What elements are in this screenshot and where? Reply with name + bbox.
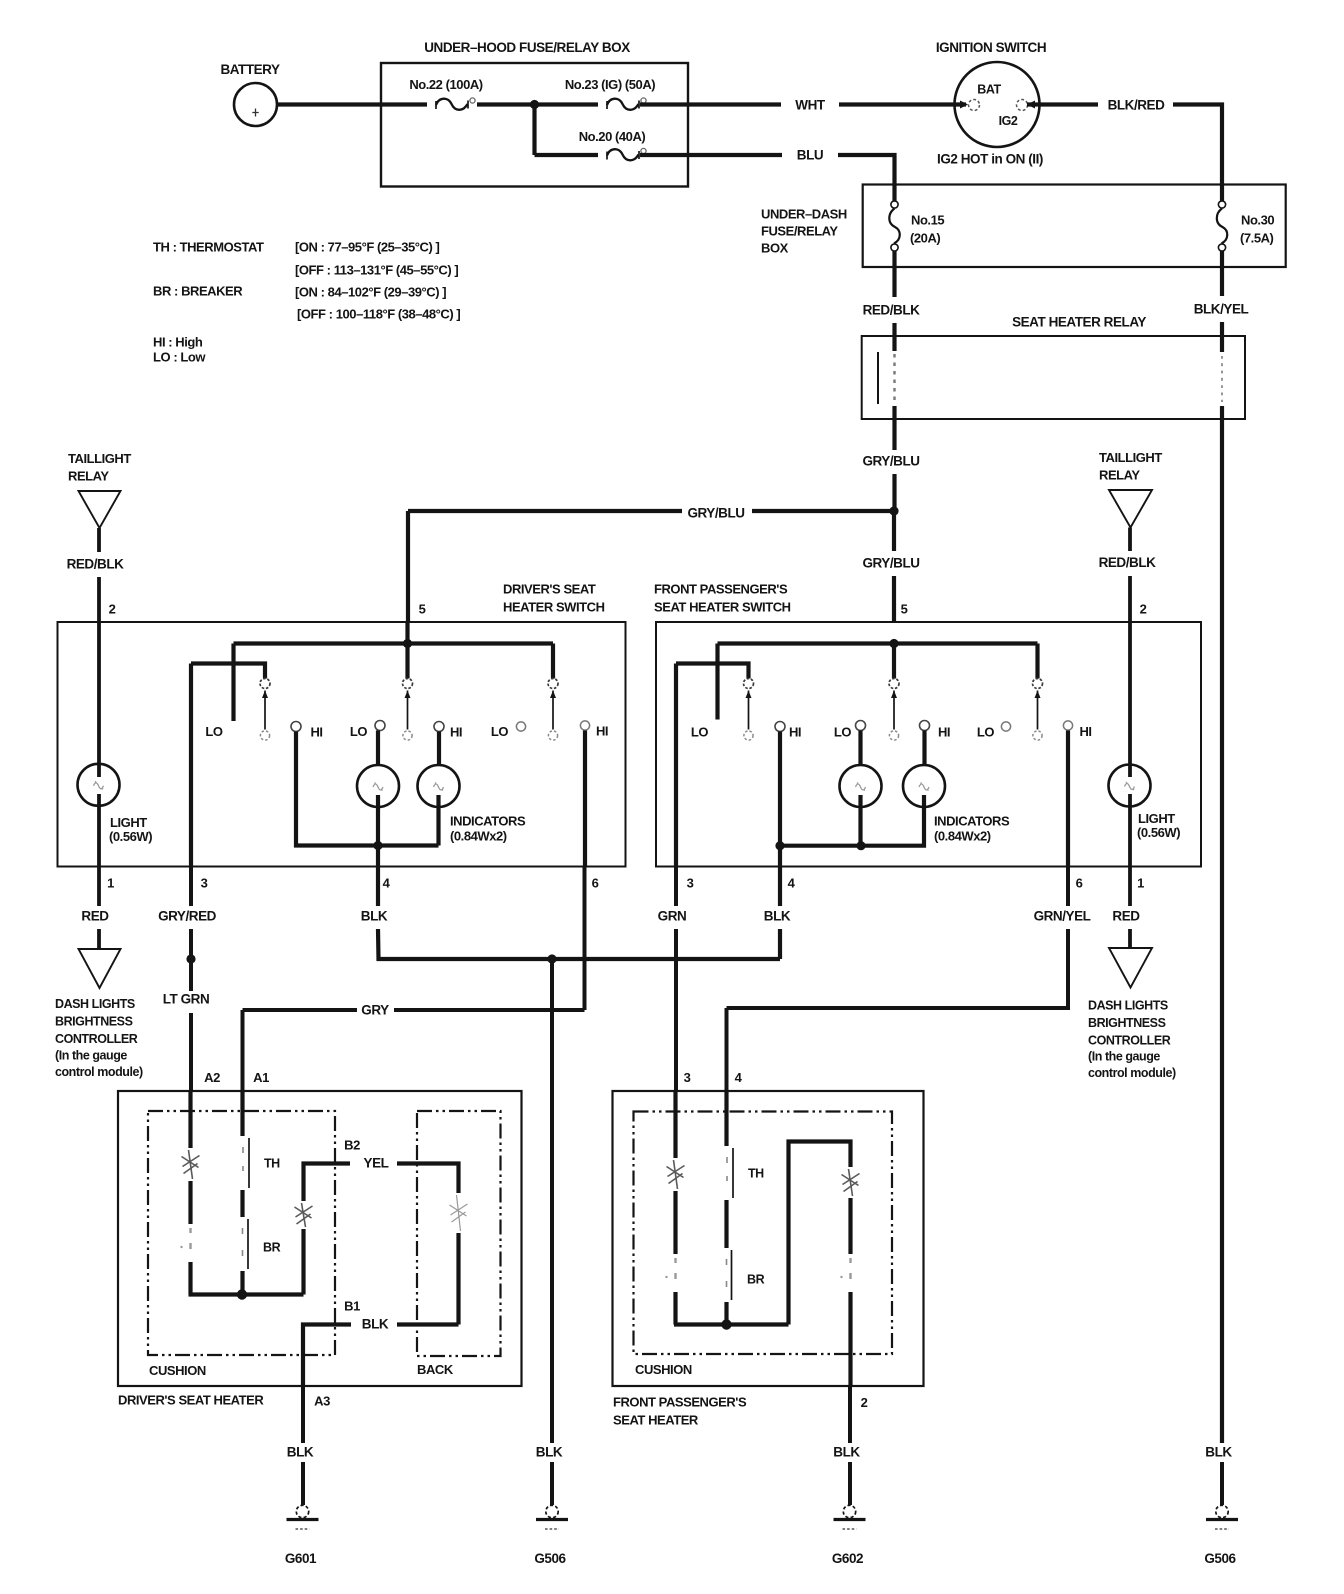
- driver cushion heater element 1: [182, 1150, 200, 1179]
- svg-text:A2: A2: [204, 1070, 220, 1085]
- svg-text:CONTROLLER: CONTROLLER: [1088, 1034, 1171, 1048]
- svg-text:2: 2: [861, 1395, 868, 1410]
- ground G506 right: [1206, 1505, 1238, 1529]
- wire passenger pin 3 riser: [674, 664, 678, 867]
- svg-text:BACK: BACK: [417, 1362, 454, 1377]
- driver switch position 2 arm tip contact: [403, 731, 412, 740]
- svg-text:(0.56W): (0.56W): [1137, 825, 1180, 840]
- passenger sw2 HI contact: [920, 721, 930, 731]
- svg-text:RED/BLK: RED/BLK: [863, 303, 921, 318]
- svg-text:BRIGHTNESS: BRIGHTNESS: [1088, 1016, 1166, 1030]
- wire GRY down to heater A1: [241, 1010, 245, 1091]
- wire passenger sw2 HI to indicator 2: [922, 731, 926, 767]
- wire driver pin1 RED upper: [97, 867, 101, 907]
- wire B1 right part: [397, 1322, 459, 1326]
- wire battery to under-hood box: [277, 102, 381, 106]
- svg-text:TH : THERMOSTAT: TH : THERMOSTAT: [153, 240, 264, 255]
- indicator bulb 2 driver: [418, 765, 460, 807]
- wire BLK branch to G506: [550, 959, 554, 1443]
- wire passenger heater bottom bus: [674, 1322, 789, 1326]
- svg-text:6: 6: [592, 876, 599, 891]
- passenger switch position 3 movable arm: [1035, 691, 1041, 730]
- wire BLK/RED to under-dash box: [1173, 105, 1222, 185]
- battery B1: [234, 83, 277, 126]
- wire driver pin6 GRY riser: [583, 867, 587, 1011]
- wire breaker to bus passenger: [724, 1302, 728, 1325]
- svg-text:HI: HI: [450, 725, 462, 740]
- passenger sw3 LO contact: [1001, 722, 1010, 731]
- svg-text:[OFF : 113–131°F (45–55°C) ]: [OFF : 113–131°F (45–55°C) ]: [295, 263, 458, 278]
- wire heater pin4 drop: [725, 1008, 729, 1091]
- wire fuse No.15 to box edge: [892, 251, 896, 267]
- svg-text:GRY/BLU: GRY/BLU: [862, 556, 919, 571]
- svg-text:RED: RED: [1112, 909, 1140, 924]
- svg-text:BR: BR: [747, 1273, 765, 1287]
- svg-text:G506: G506: [534, 1551, 566, 1566]
- svg-text:LO: LO: [350, 724, 367, 739]
- wire fuse No.30 to box edge: [1220, 251, 1224, 267]
- svg-text:UNDER–HOOD FUSE/RELAY BOX: UNDER–HOOD FUSE/RELAY BOX: [424, 40, 630, 55]
- wire GRN/YEL to heater pin4: [727, 929, 1069, 1008]
- wire taillight right upper: [1128, 528, 1132, 552]
- wire BLU to under-dash box: [838, 155, 895, 185]
- wire junction down: [532, 105, 536, 156]
- svg-text:FUSE/RELAY: FUSE/RELAY: [761, 224, 838, 239]
- wire passenger pin3 GRN upper: [674, 867, 678, 907]
- wire LT GRN to heater A2: [189, 1013, 193, 1091]
- svg-text:SEAT HEATER: SEAT HEATER: [613, 1413, 699, 1428]
- driver back heater element: [450, 1195, 468, 1231]
- svg-text:BLK: BLK: [362, 1317, 389, 1332]
- wire driver pin4 BLK upper: [376, 867, 380, 907]
- junction driver pin 5 bus: [403, 639, 412, 648]
- fuse No.23 (IG) (50A): [606, 101, 608, 109]
- wire thermostat to breaker driver: [240, 1190, 244, 1217]
- passenger switch position 3 pivot contact: [1033, 679, 1043, 689]
- svg-text:RED/BLK: RED/BLK: [67, 557, 125, 572]
- wire into fuse No.30: [1220, 185, 1224, 202]
- svg-text:control module): control module): [55, 1065, 143, 1079]
- svg-text:(In the gauge: (In the gauge: [1088, 1050, 1160, 1064]
- wire driver sw2 pivot feed: [405, 644, 409, 679]
- svg-text:RELAY: RELAY: [68, 469, 109, 484]
- wire breaker to bus driver: [240, 1271, 244, 1295]
- svg-text:LO : Low: LO : Low: [153, 350, 206, 365]
- wire BLK into right G506: [1220, 1462, 1224, 1505]
- wire into fuse No.15: [892, 185, 896, 202]
- svg-text:LO: LO: [977, 725, 994, 740]
- wire GRY right part: [394, 1008, 585, 1012]
- svg-text:1: 1: [107, 876, 114, 891]
- svg-text:HI: HI: [789, 725, 801, 740]
- driver sw2 LO contact: [375, 721, 385, 731]
- passenger switch position 3 arm tip contact: [1033, 731, 1042, 740]
- wire passenger element 2 to bus: [673, 1292, 677, 1325]
- wire passenger pin4 BLK upper: [778, 867, 782, 907]
- wire driver pin3 GRY/RED: [189, 867, 193, 907]
- ground G506 center: [536, 1505, 568, 1529]
- svg-text:CONTROLLER: CONTROLLER: [55, 1032, 138, 1046]
- ground G601: [287, 1505, 319, 1529]
- front passenger's seat heater switch box: [656, 622, 1201, 867]
- wire back element down: [456, 1233, 460, 1325]
- junction GRY/BLU: [889, 506, 898, 515]
- svg-text:(7.5A): (7.5A): [1240, 231, 1274, 246]
- svg-text:A3: A3: [314, 1394, 330, 1409]
- svg-text:HI: HI: [1079, 724, 1091, 739]
- svg-text:[ON : 77–95°F (25–35°C) ]: [ON : 77–95°F (25–35°C) ]: [295, 240, 439, 255]
- svg-text:5: 5: [419, 602, 426, 617]
- passenger sw2 LO contact: [856, 721, 866, 731]
- svg-text:LIGHT: LIGHT: [1138, 811, 1175, 826]
- wire A3 BLK upper: [301, 1386, 305, 1443]
- wire GRY/BLU drop to driver switch: [406, 511, 410, 622]
- wire passenger sw1 HI down: [778, 732, 782, 846]
- svg-text:2: 2: [109, 602, 116, 617]
- seat heater relay coil: [877, 352, 879, 404]
- dash lights brightness controller right: [1109, 948, 1152, 988]
- driver cushion heater element 3: [295, 1203, 313, 1227]
- svg-text:GRY/RED: GRY/RED: [158, 909, 217, 924]
- svg-text:BLK: BLK: [764, 909, 791, 924]
- junction passenger pin 5 bus: [889, 639, 898, 648]
- driver switch position 1 pivot contact: [260, 679, 270, 689]
- svg-text:LIGHT: LIGHT: [110, 815, 147, 830]
- light bulb passenger (0.56W): [1109, 765, 1151, 807]
- wire passenger indicator bus: [780, 844, 861, 848]
- svg-text:6: 6: [1076, 876, 1083, 891]
- taillight relay left: [79, 491, 121, 528]
- wire WHT to ignition switch: [839, 102, 966, 106]
- svg-text:TH: TH: [748, 1167, 764, 1181]
- wire driver light to pin 1: [97, 794, 101, 867]
- svg-text:GRN: GRN: [658, 909, 687, 924]
- wire driver pin 4 riser: [376, 846, 380, 867]
- seat heater relay box: [862, 336, 1245, 419]
- splice GRY/RED to LT GRN: [186, 954, 195, 963]
- wire fuse No.20 to BLU: [640, 153, 782, 157]
- wire driver sw2 HI to indicator 2: [437, 732, 441, 767]
- wire to fuse No.22: [381, 102, 427, 106]
- ground G602: [834, 1505, 866, 1529]
- wire YEL into back element: [397, 1164, 459, 1194]
- indicator bulb 1 passenger: [840, 765, 882, 807]
- wire driver pin 2 into light: [97, 622, 101, 777]
- passenger cushion heater element 1: [667, 1160, 685, 1189]
- svg-text:[ON : 84–102°F (29–39°C) ]: [ON : 84–102°F (29–39°C) ]: [295, 285, 446, 300]
- wire driver indicator bus: [372, 843, 439, 847]
- wire passenger sw1 LO contact feed: [715, 644, 719, 720]
- svg-text:INDICATORS: INDICATORS: [450, 814, 526, 829]
- wire passenger sw3 pivot feed: [1035, 644, 1039, 679]
- svg-text:DRIVER'S SEAT HEATER: DRIVER'S SEAT HEATER: [118, 1393, 264, 1408]
- wire passenger sw3 HI to pin 6: [1066, 731, 1070, 867]
- fuse No.30 (7.5A): [1218, 201, 1225, 208]
- svg-text:BATTERY: BATTERY: [220, 62, 280, 77]
- svg-text:LO: LO: [205, 724, 222, 739]
- svg-text:UNDER–DASH: UNDER–DASH: [761, 207, 847, 222]
- svg-text:WHT: WHT: [795, 98, 826, 113]
- svg-text:BLK: BLK: [1205, 1445, 1232, 1460]
- fuse No.15 (20A): [891, 201, 898, 208]
- wire passenger pin1 RED lower: [1128, 929, 1132, 948]
- svg-text:1: 1: [1137, 876, 1144, 891]
- svg-text:2: 2: [1140, 602, 1147, 617]
- wire passenger switch bus: [718, 641, 1038, 645]
- passenger switch position 2 movable arm: [891, 691, 897, 730]
- svg-text:[OFF : 100–118°F (38–48°C) ]: [OFF : 100–118°F (38–48°C) ]: [297, 307, 460, 322]
- junction under-hood bus: [530, 100, 539, 109]
- svg-text:No.22 (100A): No.22 (100A): [409, 77, 482, 92]
- svg-text:G506: G506: [1204, 1551, 1236, 1566]
- wire BLK/YEL lower: [1220, 322, 1224, 337]
- svg-text:IG2: IG2: [999, 114, 1018, 128]
- wire arrowhead at ignition IG2: [1027, 101, 1035, 109]
- svg-text:FRONT PASSENGER'S: FRONT PASSENGER'S: [654, 582, 788, 597]
- wire fuse No.23 to WHT: [640, 102, 781, 106]
- wire indicator 2 driver to bus: [436, 795, 440, 846]
- svg-text:SEAT HEATER SWITCH: SEAT HEATER SWITCH: [654, 600, 791, 615]
- svg-text:No.15: No.15: [911, 213, 944, 228]
- driver's seat heater switch box: [58, 622, 626, 867]
- under-hood fuse/relay box: [381, 63, 688, 187]
- thermostat TH driver: [248, 1138, 250, 1188]
- wire driver pin 5 riser: [405, 622, 409, 644]
- driver cushion dash-dot outline: [148, 1111, 335, 1355]
- wire driver sw2 LO to indicator 1: [376, 731, 380, 767]
- passenger sw3 HI contact: [1063, 721, 1072, 730]
- svg-text:GRY/BLU: GRY/BLU: [687, 506, 744, 521]
- indicator bulb 2 passenger: [903, 765, 945, 807]
- svg-text:DASH LIGHTS: DASH LIGHTS: [55, 997, 135, 1011]
- breaker BR passenger: [731, 1250, 733, 1300]
- driver switch position 3 pivot contact: [548, 679, 558, 689]
- svg-text:BOX: BOX: [761, 241, 789, 256]
- passenger switch position 2 pivot contact: [889, 679, 899, 689]
- wire GRY/RED to splice: [189, 929, 193, 959]
- junction driver heater bus: [237, 1289, 247, 1299]
- svg-text:3: 3: [684, 1070, 691, 1085]
- wire BLK into G601: [301, 1462, 305, 1505]
- wire driver sw3 HI to pin 6: [583, 731, 587, 867]
- svg-text:control module): control module): [1088, 1066, 1176, 1080]
- wire passenger sw1 pivot feed: [676, 664, 749, 679]
- breaker BR driver: [247, 1219, 249, 1269]
- svg-text:GRY/BLU: GRY/BLU: [862, 454, 919, 469]
- wire passenger element 1 to element 2: [673, 1191, 677, 1254]
- taillight relay right: [1109, 490, 1152, 528]
- light bulb driver (0.56W): [78, 764, 120, 806]
- wire passenger sw2 pivot feed: [892, 644, 896, 679]
- passenger cushion heater element 2 (faint): [665, 1258, 676, 1279]
- wire passenger light to pin 1: [1128, 794, 1132, 867]
- wire ignition to BLK/RED: [1027, 102, 1098, 106]
- driver back dash-dot outline: [417, 1111, 501, 1356]
- svg-text:GRN/YEL: GRN/YEL: [1034, 909, 1091, 924]
- indicator bulb 1 driver: [357, 765, 399, 807]
- svg-text:HEATER SWITCH: HEATER SWITCH: [503, 600, 605, 615]
- svg-text:BLK/YEL: BLK/YEL: [1194, 302, 1249, 317]
- front passenger's seat heater box: [613, 1091, 924, 1386]
- svg-text:(0.84Wx2): (0.84Wx2): [934, 829, 991, 844]
- driver cushion heater element 2 (faint): [180, 1228, 191, 1249]
- svg-text:IG2 HOT in ON (II): IG2 HOT in ON (II): [937, 152, 1043, 167]
- wire junction to fuse No.20: [535, 153, 599, 157]
- wire junction to fuse No.23: [535, 102, 599, 106]
- wire driver sw1 HI to indicator bus: [296, 732, 372, 846]
- driver switch position 3 movable arm: [550, 691, 556, 730]
- wire indicator 1 passenger to bus: [858, 795, 862, 846]
- wire passenger pin1 RED upper: [1128, 867, 1132, 907]
- svg-text:TAILLIGHT: TAILLIGHT: [1099, 450, 1162, 465]
- svg-text:HI: HI: [596, 724, 608, 739]
- wire driver heater bottom bus: [189, 1292, 304, 1296]
- svg-text:LO: LO: [491, 724, 508, 739]
- junction driver indicator bus: [373, 841, 382, 850]
- svg-text:5: 5: [901, 602, 908, 617]
- wire GRN to heater pin3: [674, 929, 678, 1091]
- driver switch position 2 movable arm: [405, 691, 411, 730]
- svg-text:HI: HI: [310, 725, 322, 740]
- wire passenger pin6 GRN/YEL upper: [1066, 867, 1070, 907]
- wire cushion element 2 to bus: [188, 1262, 192, 1295]
- svg-text:YEL: YEL: [364, 1156, 389, 1171]
- svg-text:BLK: BLK: [833, 1445, 860, 1460]
- passenger switch position 1 arm tip contact: [744, 731, 753, 740]
- fuse No.22 (100A): [435, 101, 437, 109]
- wire passenger sw2 LO to indicator 1: [858, 731, 862, 767]
- svg-text:3: 3: [201, 876, 208, 891]
- wire thermostat to breaker passenger: [724, 1200, 728, 1248]
- wire taillight left to switch pin 2: [97, 577, 101, 622]
- wire GRY/BLU down upper: [892, 511, 896, 551]
- wire BLK bus to passenger pin4: [378, 929, 780, 959]
- wire passenger S-bend to element 3: [789, 1142, 851, 1325]
- driver sw3 HI contact: [580, 721, 589, 730]
- wire GRY/BLU to junction: [892, 474, 896, 511]
- wire RED/BLK lower: [892, 323, 896, 337]
- passenger cushion heater element 4 (faint): [840, 1258, 851, 1279]
- svg-text:TAILLIGHT: TAILLIGHT: [68, 451, 131, 466]
- wire relay output GRY/BLU: [892, 419, 896, 450]
- passenger switch position 2 arm tip contact: [889, 731, 898, 740]
- driver sw2 HI contact: [434, 722, 444, 732]
- svg-text:(0.56W): (0.56W): [109, 829, 152, 844]
- wire bus up to cushion element 3: [301, 1229, 305, 1295]
- passenger cushion heater element 3: [842, 1169, 860, 1196]
- svg-text:RED/BLK: RED/BLK: [1099, 555, 1157, 570]
- wire relay coil ground BLK long run: [1220, 419, 1224, 1443]
- svg-text:3: 3: [687, 876, 694, 891]
- wire GRY left part: [243, 1008, 358, 1012]
- svg-text:INDICATORS: INDICATORS: [934, 814, 1010, 829]
- wire indicator 2 passenger to bus: [861, 795, 924, 846]
- wire passenger element 3 down: [848, 1198, 852, 1254]
- svg-text:A1: A1: [253, 1070, 269, 1085]
- wire pin2 BLK upper: [848, 1386, 852, 1443]
- junction BLK ground branch: [547, 954, 556, 963]
- svg-text:No.30: No.30: [1241, 213, 1274, 228]
- wire BLK into G506: [550, 1462, 554, 1505]
- svg-text:BLK/RED: BLK/RED: [1108, 98, 1166, 113]
- wire RED/BLK upper: [892, 267, 896, 297]
- wire BLK passenger to bus: [778, 929, 782, 959]
- driver's seat heater box: [118, 1091, 522, 1386]
- svg-text:BAT: BAT: [977, 83, 1001, 97]
- svg-text:GRY: GRY: [361, 1003, 389, 1018]
- wire BLK into G602: [848, 1462, 852, 1505]
- passenger sw1 HI contact: [775, 722, 785, 732]
- driver sw1 HI contact: [291, 722, 301, 732]
- junction passenger heater bus: [721, 1319, 731, 1329]
- passenger switch position 1 pivot contact: [744, 679, 754, 689]
- svg-text:SEAT HEATER RELAY: SEAT HEATER RELAY: [1012, 315, 1146, 330]
- svg-text:BR: BR: [263, 1241, 281, 1255]
- svg-text:BR : BREAKER: BR : BREAKER: [153, 284, 243, 299]
- wire pin4 to thermostat passenger: [724, 1091, 728, 1146]
- svg-text:B1: B1: [344, 1299, 360, 1314]
- junction passenger pin 4 bus: [775, 841, 784, 850]
- svg-text:LO: LO: [834, 725, 851, 740]
- svg-text:(In the gauge: (In the gauge: [55, 1049, 127, 1063]
- svg-text:CUSHION: CUSHION: [149, 1363, 206, 1378]
- svg-text:CUSHION: CUSHION: [635, 1362, 692, 1377]
- wire taillight left upper: [97, 528, 101, 552]
- ignition switch SW: [955, 62, 1040, 147]
- wire driver switch bus: [234, 641, 554, 645]
- wire element 3 to B2: [304, 1164, 351, 1202]
- wire cushion element 1 to element 2: [188, 1181, 192, 1224]
- svg-text:G601: G601: [285, 1551, 317, 1566]
- wire BLK B1 to A3: [303, 1325, 351, 1387]
- svg-text:No.20 (40A): No.20 (40A): [579, 129, 646, 144]
- svg-text:HI: HI: [938, 725, 950, 740]
- driver switch position 1 arm tip contact: [260, 731, 269, 740]
- wire fuse No.22 to junction: [477, 102, 535, 106]
- svg-text:(20A): (20A): [910, 231, 940, 246]
- wire indicator 1 driver to bus: [376, 795, 380, 846]
- wire GRY/BLU branch left part: [408, 509, 682, 513]
- wire GRY/BLU down to passenger switch: [892, 576, 896, 622]
- svg-text:No.23 (IG) (50A): No.23 (IG) (50A): [565, 77, 655, 92]
- wire pin3 to passenger element 1: [673, 1091, 677, 1158]
- svg-text:G602: G602: [832, 1551, 863, 1566]
- wire taillight right to switch pin 2: [1128, 576, 1132, 622]
- svg-text:RELAY: RELAY: [1099, 468, 1140, 483]
- wire GRY/BLU branch right part: [752, 509, 894, 513]
- driver switch position 1 movable arm: [262, 691, 268, 730]
- wire LT GRN upper: [189, 959, 193, 991]
- passenger cushion dash-dot outline: [634, 1112, 893, 1355]
- svg-text:BLU: BLU: [797, 148, 823, 163]
- wire passenger pin 2 into light: [1128, 622, 1132, 777]
- svg-text:FRONT PASSENGER'S: FRONT PASSENGER'S: [613, 1395, 747, 1410]
- wire passenger pin 4 riser: [778, 846, 782, 867]
- driver switch position 2 pivot contact: [403, 679, 413, 689]
- svg-text:BLK: BLK: [536, 1445, 563, 1460]
- svg-text:LO: LO: [691, 725, 708, 740]
- svg-text:IGNITION SWITCH: IGNITION SWITCH: [936, 40, 1046, 55]
- under-dash fuse/relay box: [863, 185, 1286, 268]
- svg-text:(0.84Wx2): (0.84Wx2): [450, 829, 507, 844]
- wire driver sw1 LO contact feed: [231, 644, 235, 722]
- svg-text:RED: RED: [81, 909, 109, 924]
- thermostat TH passenger: [732, 1148, 734, 1198]
- wire driver pin 3 riser: [189, 664, 193, 867]
- wire BLK/YEL upper: [1220, 267, 1224, 296]
- junction passenger indicator 1: [856, 841, 865, 850]
- wire passenger element 4 to pin 2: [848, 1292, 852, 1386]
